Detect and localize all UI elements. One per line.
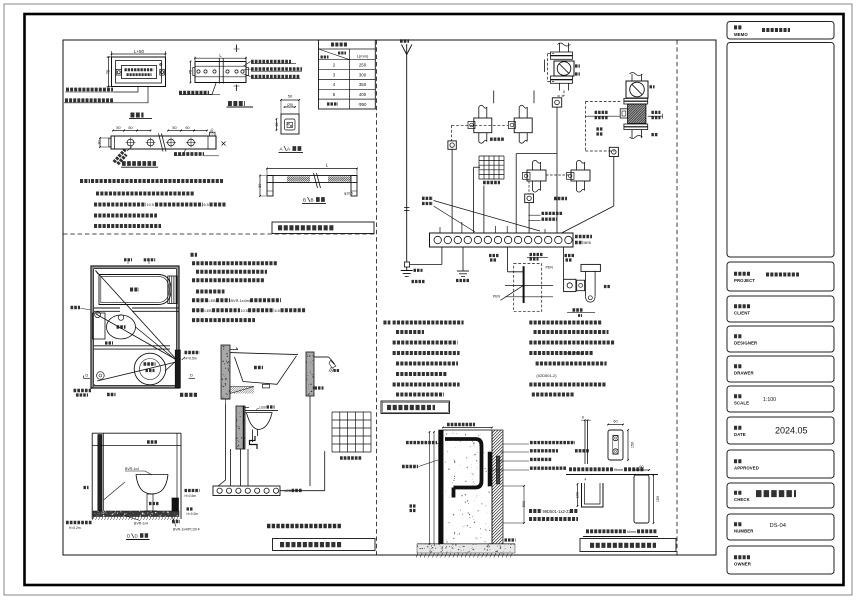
- dim 30 left B-B: [259, 176, 261, 197]
- angle steel label strip: [174, 149, 186, 156]
- svg-text:10.5: 10.5: [241, 309, 248, 313]
- svg-text:250: 250: [359, 63, 367, 68]
- caption plate 2: [586, 529, 626, 533]
- pipe pair 2 label: [554, 197, 567, 200]
- caption below plan: [180, 393, 197, 397]
- terminal box left lug: [116, 69, 121, 75]
- cross-arm end tabs: [193, 68, 195, 76]
- pipe union pair 2: [532, 162, 534, 170]
- water meter side tick: [544, 60, 546, 73]
- DD floor hatched strip: [93, 511, 179, 517]
- extra wires into busbar: [439, 227, 441, 233]
- svg-text:PEN: PEN: [546, 266, 554, 270]
- wire to PEN box: [507, 247, 509, 272]
- title block MEMO row: [727, 22, 834, 40]
- svg-text:L: L: [219, 53, 222, 58]
- svg-text:DATE: DATE: [734, 432, 746, 437]
- shower section wall: [306, 352, 314, 396]
- busbar wire to junction box: [441, 247, 443, 265]
- svg-text:H=0.2m: H=0.2m: [187, 512, 199, 516]
- dim L above B-B: [267, 168, 357, 170]
- svg-text:DRAWER: DRAWER: [734, 371, 754, 376]
- svg-text:400: 400: [359, 92, 367, 97]
- bonding clamp 1: [448, 141, 456, 149]
- pipe union pair 1: [478, 107, 480, 118]
- svg-text:5: 5: [333, 92, 336, 97]
- section B-B right bend down: [351, 176, 357, 197]
- svg-text:A: A: [287, 147, 291, 152]
- title block SCALE row: [727, 386, 834, 412]
- caption box system diagram: [381, 401, 450, 414]
- title block large empty box: [727, 43, 834, 258]
- embedded flat steel bar: [439, 430, 443, 546]
- section B-B bar horizontal: [267, 176, 357, 183]
- svg-text:SCALE: SCALE: [734, 401, 749, 406]
- DD ceiling label: [147, 440, 157, 443]
- svg-text:PEN: PEN: [493, 295, 501, 299]
- washbasin counter plan: [93, 313, 106, 339]
- svg-text:t4mm: t4mm: [627, 530, 636, 534]
- dim L top cross-arm: [194, 57, 196, 62]
- divider dashed vertical x677: [676, 40, 678, 555]
- DD ceiling interior line: [92, 445, 181, 447]
- gas meter labels: [595, 111, 608, 114]
- svg-text:75: 75: [105, 69, 110, 74]
- svg-text:D: D: [135, 534, 138, 539]
- section mark 1A top: [236, 45, 238, 53]
- caption cross-arm: [228, 101, 245, 106]
- busbar label right: [575, 235, 592, 239]
- svg-text:6.5: 6.5: [275, 309, 280, 313]
- terminal box name plate: [122, 66, 157, 79]
- terminal strip left end detail: [114, 136, 116, 149]
- title block DESIGNER row: [727, 326, 834, 352]
- svg-text:(25): (25): [287, 103, 293, 107]
- LEB terminal strip small: [213, 486, 280, 496]
- bathroom plan inner wall: [94, 269, 177, 386]
- caption terminal strip: [122, 161, 156, 166]
- pipe union pair 2 clamp tabs: [523, 173, 531, 180]
- svg-text:300: 300: [359, 72, 367, 77]
- wall left labels: [406, 441, 437, 444]
- down conductor: [406, 54, 408, 263]
- LEB embedded box on wall: [175, 350, 180, 388]
- svg-text:(25): (25): [210, 128, 214, 134]
- pipe union pair 1 clamp tabs: [468, 121, 475, 128]
- incoming pipe label: [573, 308, 583, 311]
- concrete column outline: [443, 430, 492, 546]
- svg-text:D: D: [85, 373, 88, 378]
- washbasin section wall: [236, 406, 245, 449]
- water meter dashed drop: [563, 91, 565, 97]
- pipe pair 1 stub ticks: [493, 91, 495, 104]
- terminal box right lug: [160, 69, 165, 75]
- wires to LEB strip: [218, 404, 225, 486]
- svg-text:H=0.2m: H=0.2m: [69, 526, 81, 530]
- svg-text:50: 50: [185, 126, 189, 130]
- pipe pair 1 label: [490, 137, 504, 140]
- partition wall 1: [94, 307, 179, 309]
- plan top labels: [127, 262, 129, 265]
- svg-text:L: L: [326, 163, 329, 168]
- PEN dashed box: [514, 264, 542, 312]
- svg-text:LEB: LEB: [285, 489, 292, 493]
- svg-text:LEB: LEB: [260, 406, 267, 410]
- junction box node: [404, 262, 409, 267]
- plate 2 dims: [634, 469, 649, 471]
- ground 2 label: [456, 279, 469, 282]
- washbasin profile: [245, 409, 278, 411]
- angle steel label cross-arm: [179, 83, 216, 95]
- equipotential leader lines in plan: [96, 271, 177, 360]
- water meter labels: [575, 64, 580, 67]
- svg-text:LEB: LEB: [209, 299, 217, 303]
- svg-text:BVR-1x4: BVR-1x4: [125, 467, 139, 471]
- cross-arm inner lines: [195, 65, 246, 67]
- title block NUMBER row: [727, 514, 834, 540]
- svg-text:LEB: LEB: [205, 309, 213, 313]
- table grid: [319, 40, 376, 109]
- floor drain 1: [95, 312, 101, 318]
- svg-text:D: D: [127, 534, 130, 539]
- bathtub section profile: [230, 353, 298, 355]
- wall top label: [447, 423, 475, 426]
- cross-arm vertical channel: [218, 59, 220, 84]
- bonding clamp 2: [552, 98, 561, 107]
- gas meter lower flanges: [624, 124, 648, 127]
- bonding clamp 4: [525, 194, 534, 203]
- terminal box front view outer rect: [112, 57, 166, 87]
- bent conduit thick: [445, 439, 482, 488]
- floor heating grid label: [483, 181, 500, 184]
- gas meter assembly: [630, 73, 643, 76]
- cross-arm right leader labels: [244, 62, 251, 67]
- collector wire y153: [516, 153, 557, 155]
- svg-text:NUMBER: NUMBER: [734, 529, 754, 534]
- svg-text:D: D: [190, 373, 193, 378]
- svg-text:30: 30: [97, 140, 101, 144]
- svg-text:A: A: [280, 147, 284, 152]
- plan left label: [71, 306, 81, 309]
- title block CLIENT row: [727, 296, 834, 322]
- floor strip: [417, 543, 515, 545]
- svg-text:MEMO: MEMO: [734, 32, 748, 37]
- svg-text:4: 4: [333, 82, 336, 87]
- partition wall 2: [94, 345, 170, 347]
- cover plate: [496, 456, 500, 484]
- svg-text:100: 100: [575, 492, 579, 498]
- terminal plate on wall: [488, 452, 492, 486]
- svg-text:BVR-1x4: BVR-1x4: [134, 522, 148, 526]
- inner drawing frame: [63, 40, 716, 555]
- pipe pair 1 dashed link: [452, 124, 509, 126]
- wire tile grid to strip: [324, 451, 326, 491]
- table title: [331, 43, 348, 47]
- reference text block: [529, 509, 542, 513]
- wire clamp4 to busbar: [528, 203, 530, 233]
- terminal box corner hole mark: [160, 63, 162, 65]
- tile grid: [331, 412, 333, 452]
- water meter assembly: [559, 43, 561, 52]
- dim 75 left cross-arm: [190, 62, 192, 83]
- cross-arm bar outer: [195, 62, 246, 83]
- incoming water pipe symbol: [563, 247, 565, 279]
- svg-text:3: 3: [333, 72, 336, 77]
- plan wall texture: [92, 267, 177, 386]
- svg-text:Φ50: Φ50: [359, 102, 368, 107]
- plate 1 dims: [608, 424, 623, 426]
- terminal plate detail 1: [608, 430, 623, 460]
- svg-text:30: 30: [258, 184, 262, 188]
- title block CHECK row: [727, 483, 834, 508]
- section A-A inner: [285, 119, 296, 130]
- DD right wall: [176, 433, 178, 511]
- floor drain 2: [97, 372, 105, 380]
- svg-text:PE(PEN): PE(PEN): [567, 352, 583, 356]
- insulating joint hatched: [628, 104, 646, 124]
- svg-text:1:100: 1:100: [763, 397, 776, 403]
- cross-arm holes: [197, 70, 200, 73]
- dim 500 right: [523, 486, 525, 523]
- svg-text:APPROVED: APPROVED: [734, 466, 759, 471]
- svg-text:99D501-1x2-22: 99D501-1x2-22: [543, 509, 572, 514]
- divider dashed horizontal y234: [63, 233, 377, 235]
- washing machine plan: [134, 353, 166, 385]
- antenna: [402, 45, 407, 55]
- svg-text:PROJECT: PROJECT: [734, 278, 755, 283]
- svg-text:6: 6: [582, 416, 584, 420]
- notes block top-left: [80, 179, 90, 183]
- caption box terminal board practice: [272, 222, 374, 234]
- svg-text:OWNER: OWNER: [734, 562, 752, 567]
- toilet plan: [107, 315, 136, 339]
- svg-text:CHECK: CHECK: [734, 497, 751, 502]
- wall detail dim lines left: [429, 432, 431, 544]
- terminal strip right end tab: [207, 136, 209, 149]
- dim 50 above A-A: [281, 99, 299, 101]
- dim 25 above A-A inner: [285, 106, 296, 108]
- notes center right column: [529, 321, 602, 325]
- svg-text:L(mm): L(mm): [357, 54, 369, 59]
- drain label below plan: [107, 393, 116, 396]
- caption box embedded terminal detail: [580, 539, 676, 552]
- busbar down wire labels: [489, 254, 499, 257]
- water meter bypass dashed: [547, 54, 549, 82]
- svg-text:60: 60: [613, 420, 617, 424]
- notes center left column: [383, 321, 390, 325]
- soil label: [505, 538, 516, 541]
- svg-text:60: 60: [639, 465, 643, 469]
- svg-text:t5mm: t5mm: [614, 468, 623, 472]
- svg-text:MEB: MEB: [584, 241, 592, 245]
- ground symbol 2: [457, 270, 469, 272]
- wire grid to busbar: [474, 166, 480, 168]
- svg-text:25: 25: [275, 123, 279, 127]
- bathtub plan: [99, 275, 171, 305]
- svg-text:50: 50: [288, 94, 293, 99]
- DD section ceiling line: [92, 432, 181, 434]
- terminal strip holes crosshair: [127, 139, 134, 146]
- caption A detail: [131, 113, 144, 118]
- down conductor to ground: [406, 267, 408, 271]
- title block APPROVED row: [727, 450, 834, 478]
- LEB label plan: [182, 357, 185, 360]
- svg-text:75: 75: [187, 69, 192, 74]
- gas meter left lug: [620, 109, 627, 118]
- floor heating grid: [478, 156, 480, 179]
- svg-text:150: 150: [631, 442, 635, 448]
- bathroom plan outer wall: [91, 266, 179, 388]
- section A-A outer square: [281, 114, 299, 134]
- hole size label diagonal: [114, 149, 128, 164]
- svg-text:1: 1: [236, 86, 238, 90]
- table header diagonal: [319, 49, 350, 60]
- svg-text:500: 500: [522, 501, 526, 507]
- U channel detail: [582, 483, 604, 507]
- notes block middle: [191, 253, 198, 257]
- svg-text:H=0.5m: H=0.5m: [185, 494, 197, 498]
- caption box bathroom LEB practice: [273, 539, 376, 551]
- wire clamp3 to busbar: [613, 157, 615, 207]
- note single line bottom: [267, 524, 342, 528]
- svg-text:350: 350: [359, 82, 367, 87]
- pipe pair 2 dashed link: [528, 181, 530, 194]
- ground symbol main: [401, 270, 413, 272]
- svg-text:6.5: 6.5: [204, 203, 209, 207]
- title block DRAWER row: [727, 356, 834, 382]
- bathtub section wall: [221, 345, 230, 399]
- busbar leader labels left: [422, 197, 433, 200]
- shower arm and head: [314, 356, 329, 358]
- plate detail 2: [634, 475, 649, 523]
- gas meter horizontal line: [585, 115, 620, 117]
- DD left wall: [91, 433, 93, 519]
- terminal box inner rect: [116, 61, 162, 84]
- svg-text:150: 150: [656, 496, 660, 502]
- section B-B break marks: [314, 173, 318, 188]
- svg-text:DESIGNER: DESIGNER: [734, 341, 758, 346]
- wall vertical small label: [410, 504, 416, 507]
- svg-text:BVR-1x4mm: BVR-1x4mm: [231, 299, 253, 303]
- dashed boundary box gas: [585, 101, 620, 103]
- section B-B left bend down: [267, 176, 273, 197]
- bathtub section bottom line: [221, 398, 230, 400]
- svg-text:(02D501-2): (02D501-2): [536, 373, 557, 378]
- terminal strip break marks: [159, 134, 164, 152]
- svg-text:B: B: [311, 198, 314, 203]
- tile grid label: [340, 456, 362, 459]
- busbar leader labels right: [528, 214, 540, 216]
- dims 50 top of strip: [113, 130, 124, 132]
- dim 25 left A-A: [276, 119, 278, 130]
- dim 75 left: [107, 56, 113, 58]
- bonding clamp 3: [609, 147, 618, 156]
- caption plate 1: [569, 467, 613, 471]
- finish layer hatched: [492, 430, 503, 546]
- busbar down wire 2: [462, 247, 464, 271]
- svg-text:BVR-1x4/PC20-F: BVR-1x4/PC20-F: [173, 528, 200, 532]
- svg-text:L+50: L+50: [134, 49, 145, 54]
- wall right leader labels: [503, 443, 529, 445]
- plan bottom-left labels: [74, 389, 92, 393]
- svg-text:1: 1: [236, 45, 238, 49]
- wire clamp2 to busbar: [556, 107, 558, 233]
- section mark 1A bottom: [236, 85, 238, 92]
- leader bracket label: [114, 87, 149, 103]
- shower bonding label: [315, 386, 324, 389]
- svg-text:50: 50: [172, 126, 176, 130]
- svg-text:B: B: [303, 198, 306, 203]
- towel rack grille: [168, 276, 177, 304]
- title block PROJECT row: [727, 262, 834, 291]
- divider dashed vertical x376: [376, 40, 378, 555]
- svg-text:2: 2: [333, 63, 336, 68]
- MEB busbar: [430, 233, 574, 247]
- DD LEB box: [172, 498, 179, 511]
- svg-text:DS-04: DS-04: [770, 523, 787, 529]
- svg-text:2024.05: 2024.05: [775, 426, 808, 436]
- DD bathtub dome: [136, 475, 168, 495]
- title block OWNER row: [727, 546, 834, 574]
- ground label: [414, 269, 423, 272]
- svg-text:CLIENT: CLIENT: [734, 311, 750, 316]
- svg-text:4: 4: [585, 478, 587, 482]
- wire clamp1 to busbar: [451, 149, 453, 232]
- terminal strip bar outline: [111, 136, 216, 149]
- svg-text:φ10.5: φ10.5: [344, 192, 353, 196]
- title block DATE row: [727, 417, 834, 444]
- dim L+50 top: [111, 51, 113, 59]
- dim 30 left of strip: [99, 138, 101, 147]
- svg-text:H=0.5m: H=0.5m: [185, 357, 197, 361]
- leader weld label: [114, 87, 139, 93]
- svg-text:10.5: 10.5: [147, 203, 154, 207]
- svg-text:50: 50: [128, 126, 132, 130]
- flat bar elevation right: [584, 421, 586, 464]
- svg-text:50: 50: [116, 126, 120, 130]
